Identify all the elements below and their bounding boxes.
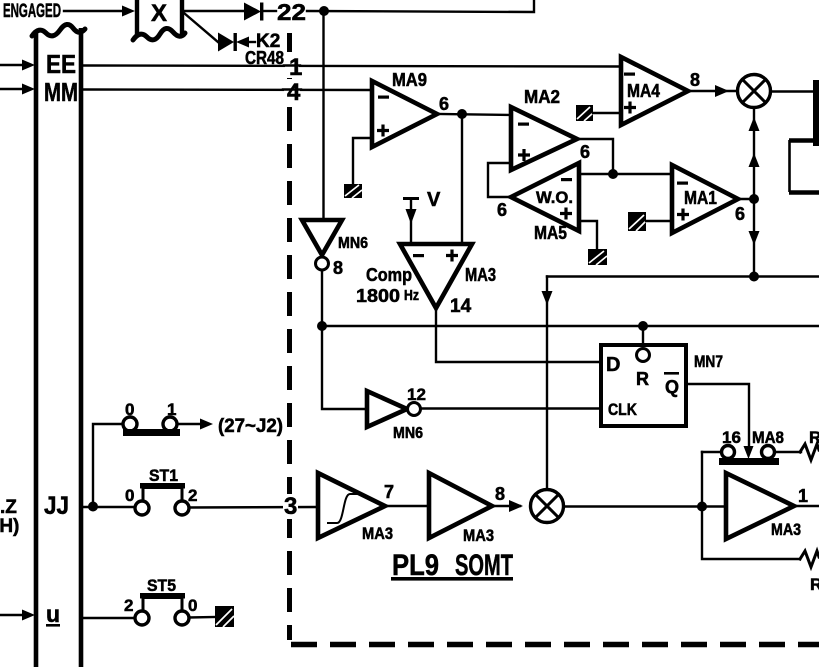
wire stub down to R bubble bbox=[642, 326, 644, 349]
arrow into bus (line 4) bbox=[0, 84, 35, 95]
cut-off block at right edge bbox=[789, 80, 819, 193]
svg-text:.Z: .Z bbox=[0, 497, 17, 518]
box X (torn-off block) bbox=[133, 0, 185, 40]
inverter MN6 second (horizontal) bbox=[367, 385, 426, 442]
wire junction to MA3 input bbox=[702, 505, 726, 507]
svg-text:ST5: ST5 bbox=[147, 576, 176, 595]
diode K2 CR48 bbox=[218, 33, 237, 52]
svg-text:1800: 1800 bbox=[356, 286, 400, 306]
D flip-flop MN7 bbox=[601, 345, 686, 426]
svg-text:12: 12 bbox=[407, 385, 426, 404]
wire Q-bar output to switch MA8 wiper bbox=[686, 384, 749, 447]
svg-text:(27~J2): (27~J2) bbox=[218, 416, 283, 437]
wire line A corner down to bottom multiplier with flow arrow bbox=[542, 277, 553, 491]
svg-text:MA3: MA3 bbox=[362, 524, 393, 543]
svg-text:14: 14 bbox=[450, 296, 472, 317]
hatch termination at MA9 + input bbox=[344, 184, 362, 198]
svg-text:MA9: MA9 bbox=[392, 70, 427, 90]
wire hatch to MA1 + input bbox=[646, 220, 672, 222]
junction on node 22 wire bbox=[319, 6, 329, 16]
wire junction to MA5 inverting input bbox=[580, 173, 613, 175]
wire limiter to buffer MA3 bbox=[385, 505, 429, 507]
svg-text:8: 8 bbox=[333, 258, 343, 278]
svg-text:R: R bbox=[810, 575, 819, 594]
svg-text:Q: Q bbox=[665, 377, 679, 397]
wire MA9 output pin 6 bbox=[437, 114, 511, 115]
buffer amp MA3 bbox=[429, 473, 494, 545]
wire box X to diode CR-top bbox=[184, 10, 244, 12]
svg-text:3: 3 bbox=[284, 493, 297, 520]
svg-text:2: 2 bbox=[188, 486, 197, 505]
wire MA9 + input to hatch ground bbox=[353, 138, 372, 186]
svg-text:MN7: MN7 bbox=[694, 352, 723, 371]
svg-text:MA2: MA2 bbox=[524, 87, 560, 107]
hatch termination at ST5 bbox=[215, 606, 234, 627]
svg-text:MM: MM bbox=[44, 77, 78, 107]
wire MA2 output pin 6 to junction bbox=[577, 139, 613, 174]
op-amp MA2 bbox=[511, 87, 577, 170]
wire line A horizontal bbox=[547, 275, 819, 277]
svg-text:Hz: Hz bbox=[404, 287, 419, 304]
wire JJ row from bus to ST1 bbox=[84, 506, 135, 508]
svg-text:1: 1 bbox=[798, 486, 808, 506]
wire junction to MA1 inverting input bbox=[613, 173, 672, 175]
svg-text:6: 6 bbox=[497, 200, 507, 220]
junction line B start bbox=[317, 321, 327, 331]
wire selector to arrow (27-J2) bbox=[177, 419, 213, 430]
pin label 1 on boundary bbox=[284, 52, 302, 81]
junction MA1 output bbox=[749, 194, 759, 204]
wire diode to label 22 bbox=[263, 10, 276, 12]
svg-text:MA4: MA4 bbox=[627, 81, 660, 101]
wire MN6 output pin 12 to CLK bbox=[421, 407, 602, 409]
wire hatch to MA4 + input bbox=[593, 112, 621, 114]
selector switch 0-1 to (27-J2) bbox=[123, 400, 180, 436]
wire from node 22 down to inverter MN6 bbox=[322, 11, 324, 220]
label u on bus bbox=[46, 601, 60, 627]
junction line B to reset bbox=[638, 321, 648, 331]
op-amp MA5 (W.O.) pointing left bbox=[511, 163, 579, 243]
svg-text:EE: EE bbox=[46, 49, 76, 79]
svg-text:MA3: MA3 bbox=[465, 265, 496, 285]
svg-text:ENGAGED: ENGAGED bbox=[3, 1, 61, 22]
switch MA8 wiper arrow bbox=[744, 446, 754, 459]
wire MA5 + input to hatch ground bbox=[579, 221, 597, 251]
wire arrow from ENGAGED to box X bbox=[64, 6, 135, 17]
svg-text:6: 6 bbox=[439, 94, 449, 114]
svg-text:0: 0 bbox=[125, 486, 134, 505]
hatch termination at MA4 + input bbox=[576, 105, 593, 121]
wire switch MA8 right contact to resistor R bbox=[775, 451, 801, 453]
junction on line A bbox=[749, 272, 759, 282]
wire vertical from multiplier down through MA1 node to line A with flow arrows bbox=[749, 108, 760, 276]
wire ST5 to hatch termination bbox=[189, 616, 216, 619]
svg-text:X: X bbox=[151, 0, 167, 27]
svg-text:MA1: MA1 bbox=[684, 188, 717, 208]
svg-text:4: 4 bbox=[287, 79, 301, 106]
wire MA1 output to vertical node bbox=[738, 198, 752, 200]
wire MA3 output to right edge bbox=[794, 505, 819, 507]
svg-text:JJ: JJ bbox=[44, 492, 69, 520]
dashed boundary vertical (PL9 SOMT block border) bbox=[287, 33, 292, 640]
supply arrow V into comparator MA3 bbox=[403, 189, 441, 244]
svg-text:u: u bbox=[46, 601, 60, 627]
svg-text:1: 1 bbox=[289, 54, 302, 81]
junction JJ row bbox=[88, 502, 98, 512]
wire bottom multiplier output to junction bbox=[564, 505, 703, 507]
svg-text:16: 16 bbox=[722, 428, 741, 447]
svg-text:ST1: ST1 bbox=[149, 466, 178, 485]
junction MA2/MA5/MA1 node bbox=[608, 169, 618, 179]
inverter MN6 (vertical) bbox=[302, 220, 368, 270]
svg-text:0: 0 bbox=[188, 596, 197, 615]
wire net 1 from bus to MA4 inverting input bbox=[84, 66, 621, 67]
svg-text:2: 2 bbox=[124, 596, 133, 615]
arrow into bus (line 1) bbox=[0, 60, 35, 71]
svg-text:7: 7 bbox=[384, 482, 394, 502]
svg-text:MA3: MA3 bbox=[771, 520, 801, 539]
junction MA9 output bbox=[457, 109, 467, 119]
pin label 4 on boundary bbox=[283, 79, 301, 106]
diode (top, to node 22) bbox=[244, 3, 263, 21]
multiplier (circle-X) bottom bbox=[531, 490, 564, 523]
svg-text:V: V bbox=[427, 189, 441, 211]
svg-text:MN6: MN6 bbox=[338, 235, 368, 252]
resistor R (cut at edge, bottom) bbox=[800, 551, 819, 567]
op-amp MA1 bbox=[672, 165, 738, 233]
wire ST1 to limiter MA3 crossing boundary pin 3 bbox=[189, 506, 318, 509]
label Comp 1800 Hz bbox=[356, 265, 419, 306]
limiter amp MA3 bbox=[318, 473, 393, 543]
arrow into bus at u row bbox=[0, 610, 35, 621]
wire buffer output with arrow into bottom multiplier bbox=[492, 500, 523, 512]
op-amp MA4 bbox=[621, 57, 688, 125]
switch MA8 bbox=[719, 428, 784, 465]
svg-text:(H): (H) bbox=[0, 516, 19, 537]
svg-text:MN6: MN6 bbox=[393, 425, 423, 442]
op-amp MA9 bbox=[372, 70, 437, 147]
wire MN6 output down and to inverter MN6 second bbox=[322, 270, 367, 409]
wire MA4 output with arrow into multiplier bbox=[688, 85, 736, 97]
svg-text:Comp: Comp bbox=[366, 265, 412, 285]
switch ST5 bbox=[124, 576, 197, 625]
wire MA9 output down to comparator MA3 + input bbox=[461, 114, 463, 244]
bus EE MM (vertical connector bar) bbox=[32, 24, 85, 667]
svg-text:MA5: MA5 bbox=[534, 223, 567, 243]
junction at MA3 output amp input bbox=[697, 502, 707, 512]
wire switch MA8 left contact to feedback node bbox=[702, 451, 721, 453]
svg-text:6: 6 bbox=[580, 142, 590, 162]
wire feedback vertical and bottom to resistor R bbox=[702, 452, 800, 559]
wire bus to ST5 bbox=[84, 617, 135, 619]
arrow into diode from K2 coil bbox=[236, 37, 255, 48]
svg-text:R: R bbox=[636, 369, 649, 389]
hatch termination at MA1 + input bbox=[628, 212, 646, 231]
pin 3 label on boundary bbox=[283, 493, 298, 520]
svg-text:R: R bbox=[809, 428, 819, 447]
wire net 4 from bus to MA9 inverting input bbox=[84, 88, 372, 91]
comparator MA3 (Comp 1800 Hz) pointing down bbox=[400, 244, 472, 308]
svg-text:8: 8 bbox=[495, 484, 505, 504]
svg-text:6: 6 bbox=[735, 204, 745, 224]
diagonal wire from box X to diode K2 bbox=[184, 13, 218, 42]
wire multiplier output to right block bbox=[771, 90, 815, 92]
svg-text:W.O.: W.O. bbox=[536, 188, 573, 207]
svg-text:8: 8 bbox=[690, 70, 700, 90]
op-amp MA3 output stage bbox=[726, 473, 801, 539]
svg-text:MA3: MA3 bbox=[463, 526, 494, 545]
wire line B horizontal to right edge bbox=[322, 325, 819, 327]
feedback wire MA5 output to MA2 + input bbox=[488, 163, 511, 197]
svg-text:22: 22 bbox=[277, 0, 306, 25]
wire node 22 to top edge bbox=[307, 0, 534, 12]
wire junction up to selector 0-1 bbox=[93, 424, 123, 506]
wire comparator output to D input of MN7 bbox=[436, 308, 601, 362]
resistor R (cut at edge, top) bbox=[800, 444, 819, 460]
title PL9 SOMT underlined bbox=[391, 549, 513, 582]
switch ST1 bbox=[125, 466, 197, 515]
multiplier (circle-X) top bbox=[738, 75, 771, 108]
dashed boundary horizontal (PL9 SOMT block border) bbox=[291, 642, 819, 648]
svg-text:CLK: CLK bbox=[608, 400, 638, 419]
svg-text:D: D bbox=[606, 354, 620, 376]
hatch termination at MA5 + input bbox=[588, 249, 607, 265]
